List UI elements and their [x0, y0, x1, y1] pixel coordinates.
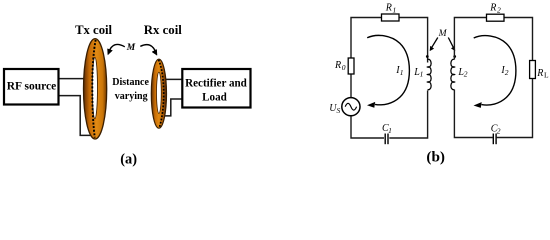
- label M (part a): [126, 43, 136, 53]
- resistor R0: [334, 58, 354, 74]
- wire left loop: C1 left plate to Us bottom: [351, 116, 384, 138]
- svg-text:Distance: Distance: [112, 77, 149, 88]
- caption (a): [120, 151, 137, 167]
- wire from RF source top: [59, 78, 91, 80]
- wire left loop: R0 top to R1 left: [351, 18, 382, 59]
- Rx coil: [151, 59, 166, 128]
- svg-text:Rectifier and: Rectifier and: [185, 77, 248, 89]
- resistor R2: [487, 3, 505, 22]
- svg-text:2: 2: [497, 126, 501, 135]
- wire from RF source bottom: [59, 96, 93, 136]
- svg-text:varying: varying: [115, 91, 148, 102]
- inductor L2: [451, 55, 468, 90]
- svg-text:0: 0: [342, 63, 346, 72]
- svg-text:1: 1: [393, 6, 397, 15]
- inductor L1: [413, 55, 431, 90]
- mutual inductance M with arrows (part b): [430, 29, 456, 51]
- RF source box: [4, 69, 59, 105]
- resistor R1: [382, 3, 400, 21]
- mutual coupling arrow right (part a): [140, 45, 157, 56]
- wire left loop: R1 right to L1 top: [399, 18, 428, 63]
- capacitor C2: [491, 124, 501, 145]
- Rectifier and Load box: [182, 69, 250, 108]
- svg-text:R: R: [385, 3, 392, 14]
- wire to rectifier bottom: [162, 99, 183, 116]
- current arrow I2: [474, 36, 516, 108]
- label Rx coil: [144, 23, 182, 37]
- current arrow I1: [367, 35, 409, 107]
- svg-text:R: R: [536, 68, 543, 79]
- svg-text:Load: Load: [202, 92, 227, 104]
- svg-text:S: S: [337, 106, 341, 115]
- svg-text:1: 1: [420, 70, 424, 79]
- wire right loop: RL bottom to C2 right plate: [497, 79, 533, 138]
- wire right loop: L2 top to R2 left: [454, 18, 486, 60]
- source Us: [329, 98, 360, 116]
- svg-text:L: L: [544, 71, 549, 80]
- wire right loop: C2 left plate to L2 bottom: [454, 90, 492, 138]
- svg-text:RF source: RF source: [7, 81, 57, 93]
- label Tx coil: [75, 23, 112, 37]
- svg-text:(a): (a): [120, 151, 137, 167]
- wire right loop: R2 right to RL top: [504, 18, 533, 61]
- svg-text:Tx coil: Tx coil: [75, 23, 112, 37]
- svg-text:M: M: [438, 29, 448, 39]
- svg-text:(b): (b): [426, 149, 445, 166]
- label Distance varying: [112, 77, 149, 102]
- resistor RL: [530, 61, 549, 80]
- mutual coupling arrow left (part a): [108, 44, 125, 54]
- svg-text:M: M: [126, 43, 136, 53]
- svg-text:R: R: [334, 60, 341, 71]
- svg-text:2: 2: [464, 70, 468, 79]
- svg-text:Rx coil: Rx coil: [144, 23, 182, 37]
- wire left loop: L1 bottom to C1 right plate: [389, 91, 427, 139]
- wire to rectifier top: [164, 78, 182, 80]
- capacitor C1: [382, 123, 392, 144]
- wire left loop: R0 bottom to Us top: [350, 74, 352, 98]
- svg-text:1: 1: [388, 126, 392, 135]
- svg-text:2: 2: [497, 6, 501, 15]
- svg-text:2: 2: [505, 68, 509, 77]
- svg-text:1: 1: [400, 68, 404, 77]
- caption (b): [426, 149, 445, 166]
- svg-text:R: R: [489, 3, 496, 14]
- Tx coil: [84, 39, 107, 139]
